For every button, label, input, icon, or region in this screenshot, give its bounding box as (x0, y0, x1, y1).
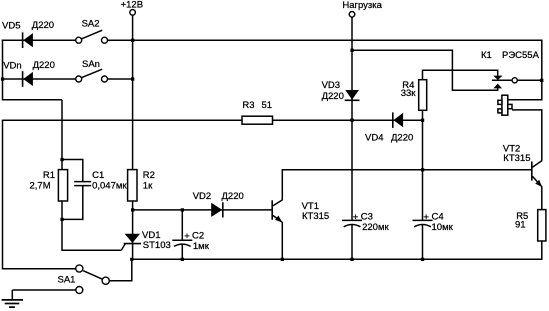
diode VD2 cathode bar (222, 202, 224, 217)
svg-text:ST103: ST103 (143, 240, 171, 251)
wire VT1 collector riser and y170 line to VT2 base (282, 170, 532, 200)
svg-text:1мк: 1мк (193, 241, 210, 252)
wire VT1 emitter riser to rail (281, 222, 283, 259)
transistor VT1 emitter arrow (275, 216, 282, 223)
transistor VT1 emitter diagonal (273, 215, 282, 222)
node R1 top junction (60, 158, 63, 161)
capacitor C3 curved plate (344, 225, 361, 227)
wire R4 top over to upper relay contact (423, 70, 498, 79)
diode VD3 triangle (345, 90, 359, 100)
wire C3 bottom to rail (351, 225, 353, 259)
node +12V rail junction (131, 39, 134, 42)
svg-text:Д220: Д220 (391, 132, 413, 143)
relay K1 coil right tab (508, 104, 512, 108)
node C2 rail junction (181, 258, 184, 261)
wire SA1 lower contact to ground (12, 290, 76, 300)
svg-text:33к: 33к (401, 88, 417, 99)
svg-text:+: + (423, 212, 429, 223)
node R4 bottom junction (421, 119, 424, 122)
capacitor C2 curved plate (174, 244, 191, 246)
ground bar 3 (9, 306, 15, 308)
svg-text:1к: 1к (143, 180, 153, 191)
svg-text:Д220: Д220 (222, 191, 244, 202)
wire load node right and down to lower relay contact (352, 50, 498, 90)
capacitor C2 top plate (172, 239, 192, 241)
svg-text:КТ315: КТ315 (302, 211, 329, 222)
wire coil bottom right and down to VT2 collector (512, 110, 542, 161)
svg-text:SA1: SA1 (58, 275, 76, 286)
node R1 bottom junction (60, 218, 63, 221)
node VD3-R3-VD4-C3 junction (350, 119, 353, 122)
diode VD5 cathode bar (22, 32, 24, 48)
wire R3 right to VD4 to R4 bottom node (273, 119, 423, 121)
relay upper contact triangle (493, 76, 502, 80)
capacitor C3 top plate (342, 219, 362, 221)
wire C4 bottom to rail (422, 225, 424, 259)
svg-text:Д220: Д220 (33, 60, 55, 71)
switch SA1 lower contact (76, 287, 83, 294)
svg-text:VD2: VD2 (193, 191, 211, 202)
wire C1 branch from R1 top node (62, 160, 83, 220)
node C4 rail junction (421, 258, 424, 261)
ground bar 2 (5, 303, 20, 305)
wire row2 SAn right to +12V vertical (107, 78, 132, 80)
transistor VT2 collector diagonal (532, 161, 542, 168)
svg-text:51: 51 (262, 100, 273, 111)
node relay contact rail junction (540, 79, 543, 82)
wire relay contact common to right junction and down to coil top (508, 80, 542, 99)
switch SA2 lever (81, 30, 102, 39)
thyristor VD1 triangle (125, 234, 140, 243)
diode VDn cathode bar (22, 71, 24, 87)
svg-text:Д220: Д220 (32, 20, 54, 31)
node VDn left junction (1, 77, 4, 80)
diode VD4 cathode bar (392, 112, 394, 128)
switch SAn lever (81, 69, 102, 78)
switch SA2 right contact (102, 37, 108, 43)
relay K1 coil body (502, 95, 508, 115)
wire R1 bottom to thyristor gate line (62, 201, 121, 250)
relay K1 coil left tab upper (498, 100, 502, 104)
wire VT2 emitter riser to R5 (541, 187, 543, 210)
wire row2 VDn left segment (2, 78, 76, 80)
switch SA1 right contact (102, 277, 109, 284)
diode VD4 triangle (393, 113, 403, 127)
svg-text:+12В: +12В (121, 0, 143, 11)
thyristor VD1 gate diagonal (121, 244, 125, 251)
svg-text:+: + (353, 212, 359, 223)
svg-text:К1: К1 (481, 50, 492, 61)
resistor R1 body (58, 170, 67, 201)
wire SA1 riser from bottom rail (109, 259, 132, 280)
switch SA2 left contact (76, 37, 82, 43)
wire left vertical A from VD5 row down and over to R1 top (3, 40, 63, 170)
switch SAn right contact (102, 76, 108, 82)
transistor VT2 emitter arrow (535, 180, 542, 187)
svg-text:R3: R3 (242, 100, 254, 111)
relay K1 coil left tab lower (498, 109, 502, 113)
node VT1 emitter rail junction (281, 258, 284, 261)
wire base line from R2 node to VT1 (133, 209, 273, 211)
svg-text:10мк: 10мк (432, 222, 454, 233)
node R4-C4-VT2 base junction (421, 168, 424, 171)
node rail left end junction (130, 258, 133, 261)
svg-text:220мк: 220мк (362, 222, 389, 233)
node SAn right junction (131, 77, 134, 80)
node load branch junction (350, 49, 353, 52)
svg-text:Нагрузка: Нагрузка (342, 0, 382, 11)
resistor R5 body (538, 210, 546, 241)
diode VDn triangle (23, 72, 33, 86)
terminal +12V circle (130, 10, 136, 16)
svg-text:SA2: SA2 (82, 18, 100, 29)
svg-text:91: 91 (515, 219, 526, 230)
transistor VT2 base bar (531, 161, 533, 180)
node VD2-C2 junction (181, 208, 184, 211)
thyristor VD1 cathode bar (124, 243, 141, 245)
switch SA1 left contact (76, 265, 83, 272)
wire top rail row1 left segment (2, 39, 76, 41)
svg-text:2,7М: 2,7М (30, 180, 51, 191)
relay contact pivot circle (512, 78, 517, 83)
resistor R4 body (419, 80, 427, 111)
diode VD3 cathode bar (345, 99, 360, 101)
capacitor C1 top plate (74, 181, 91, 183)
svg-text:VD5: VD5 (2, 20, 20, 31)
capacitor C4 curved plate (414, 225, 431, 227)
wire top rail +12V from SA2 to right corner down to relay contact (107, 40, 541, 80)
transistor VT1 collector diagonal (273, 200, 283, 206)
svg-text:КТ315: КТ315 (503, 153, 530, 164)
diode VD5 triangle (23, 33, 33, 47)
switch SA1 lever (83, 271, 103, 280)
wire +12V vertical from terminal down to R2 (132, 15, 134, 170)
svg-text:C1: C1 (92, 170, 104, 181)
svg-text:Д220: Д220 (322, 91, 344, 102)
transistor VT2 emitter diagonal (532, 176, 542, 187)
svg-text:VD4: VD4 (365, 132, 383, 143)
wire relay contact bar (492, 79, 512, 81)
wire R4 bottom through nodes to C4 (422, 110, 424, 220)
transistor VT1 base bar (271, 200, 273, 219)
node C3 rail junction (350, 258, 353, 261)
capacitor C4 top plate (413, 219, 433, 221)
node R2 bottom junction (131, 208, 134, 211)
wire left vertical B with y120 line to R3 (3, 120, 243, 269)
relay lower contact triangle (493, 84, 502, 89)
diode VD2 triangle (211, 203, 222, 217)
svg-text:VDn: VDn (3, 60, 21, 71)
svg-text:РЭС55А: РЭС55А (502, 50, 540, 61)
svg-text:VD3: VD3 (322, 80, 340, 91)
wire R2 bottom to VD1 to bottom rail (132, 201, 134, 259)
svg-text:C2: C2 (192, 230, 204, 241)
wire C2 branch (181, 210, 183, 259)
svg-text:0,047мк: 0,047мк (92, 181, 127, 192)
svg-text:+: + (184, 231, 190, 242)
svg-text:R2: R2 (143, 170, 155, 181)
switch SAn left contact (76, 76, 82, 82)
wire load terminal down through VD3 to C3 (351, 17, 353, 220)
capacitor C1 bottom plate (74, 185, 91, 187)
svg-text:SAn: SAn (82, 59, 100, 70)
resistor R3 body (242, 116, 273, 124)
wire R5 bottom corner and bottom rail (132, 241, 542, 259)
resistor R2 body (128, 170, 137, 201)
ground bar 1 (2, 299, 23, 301)
terminal load circle (349, 12, 355, 18)
